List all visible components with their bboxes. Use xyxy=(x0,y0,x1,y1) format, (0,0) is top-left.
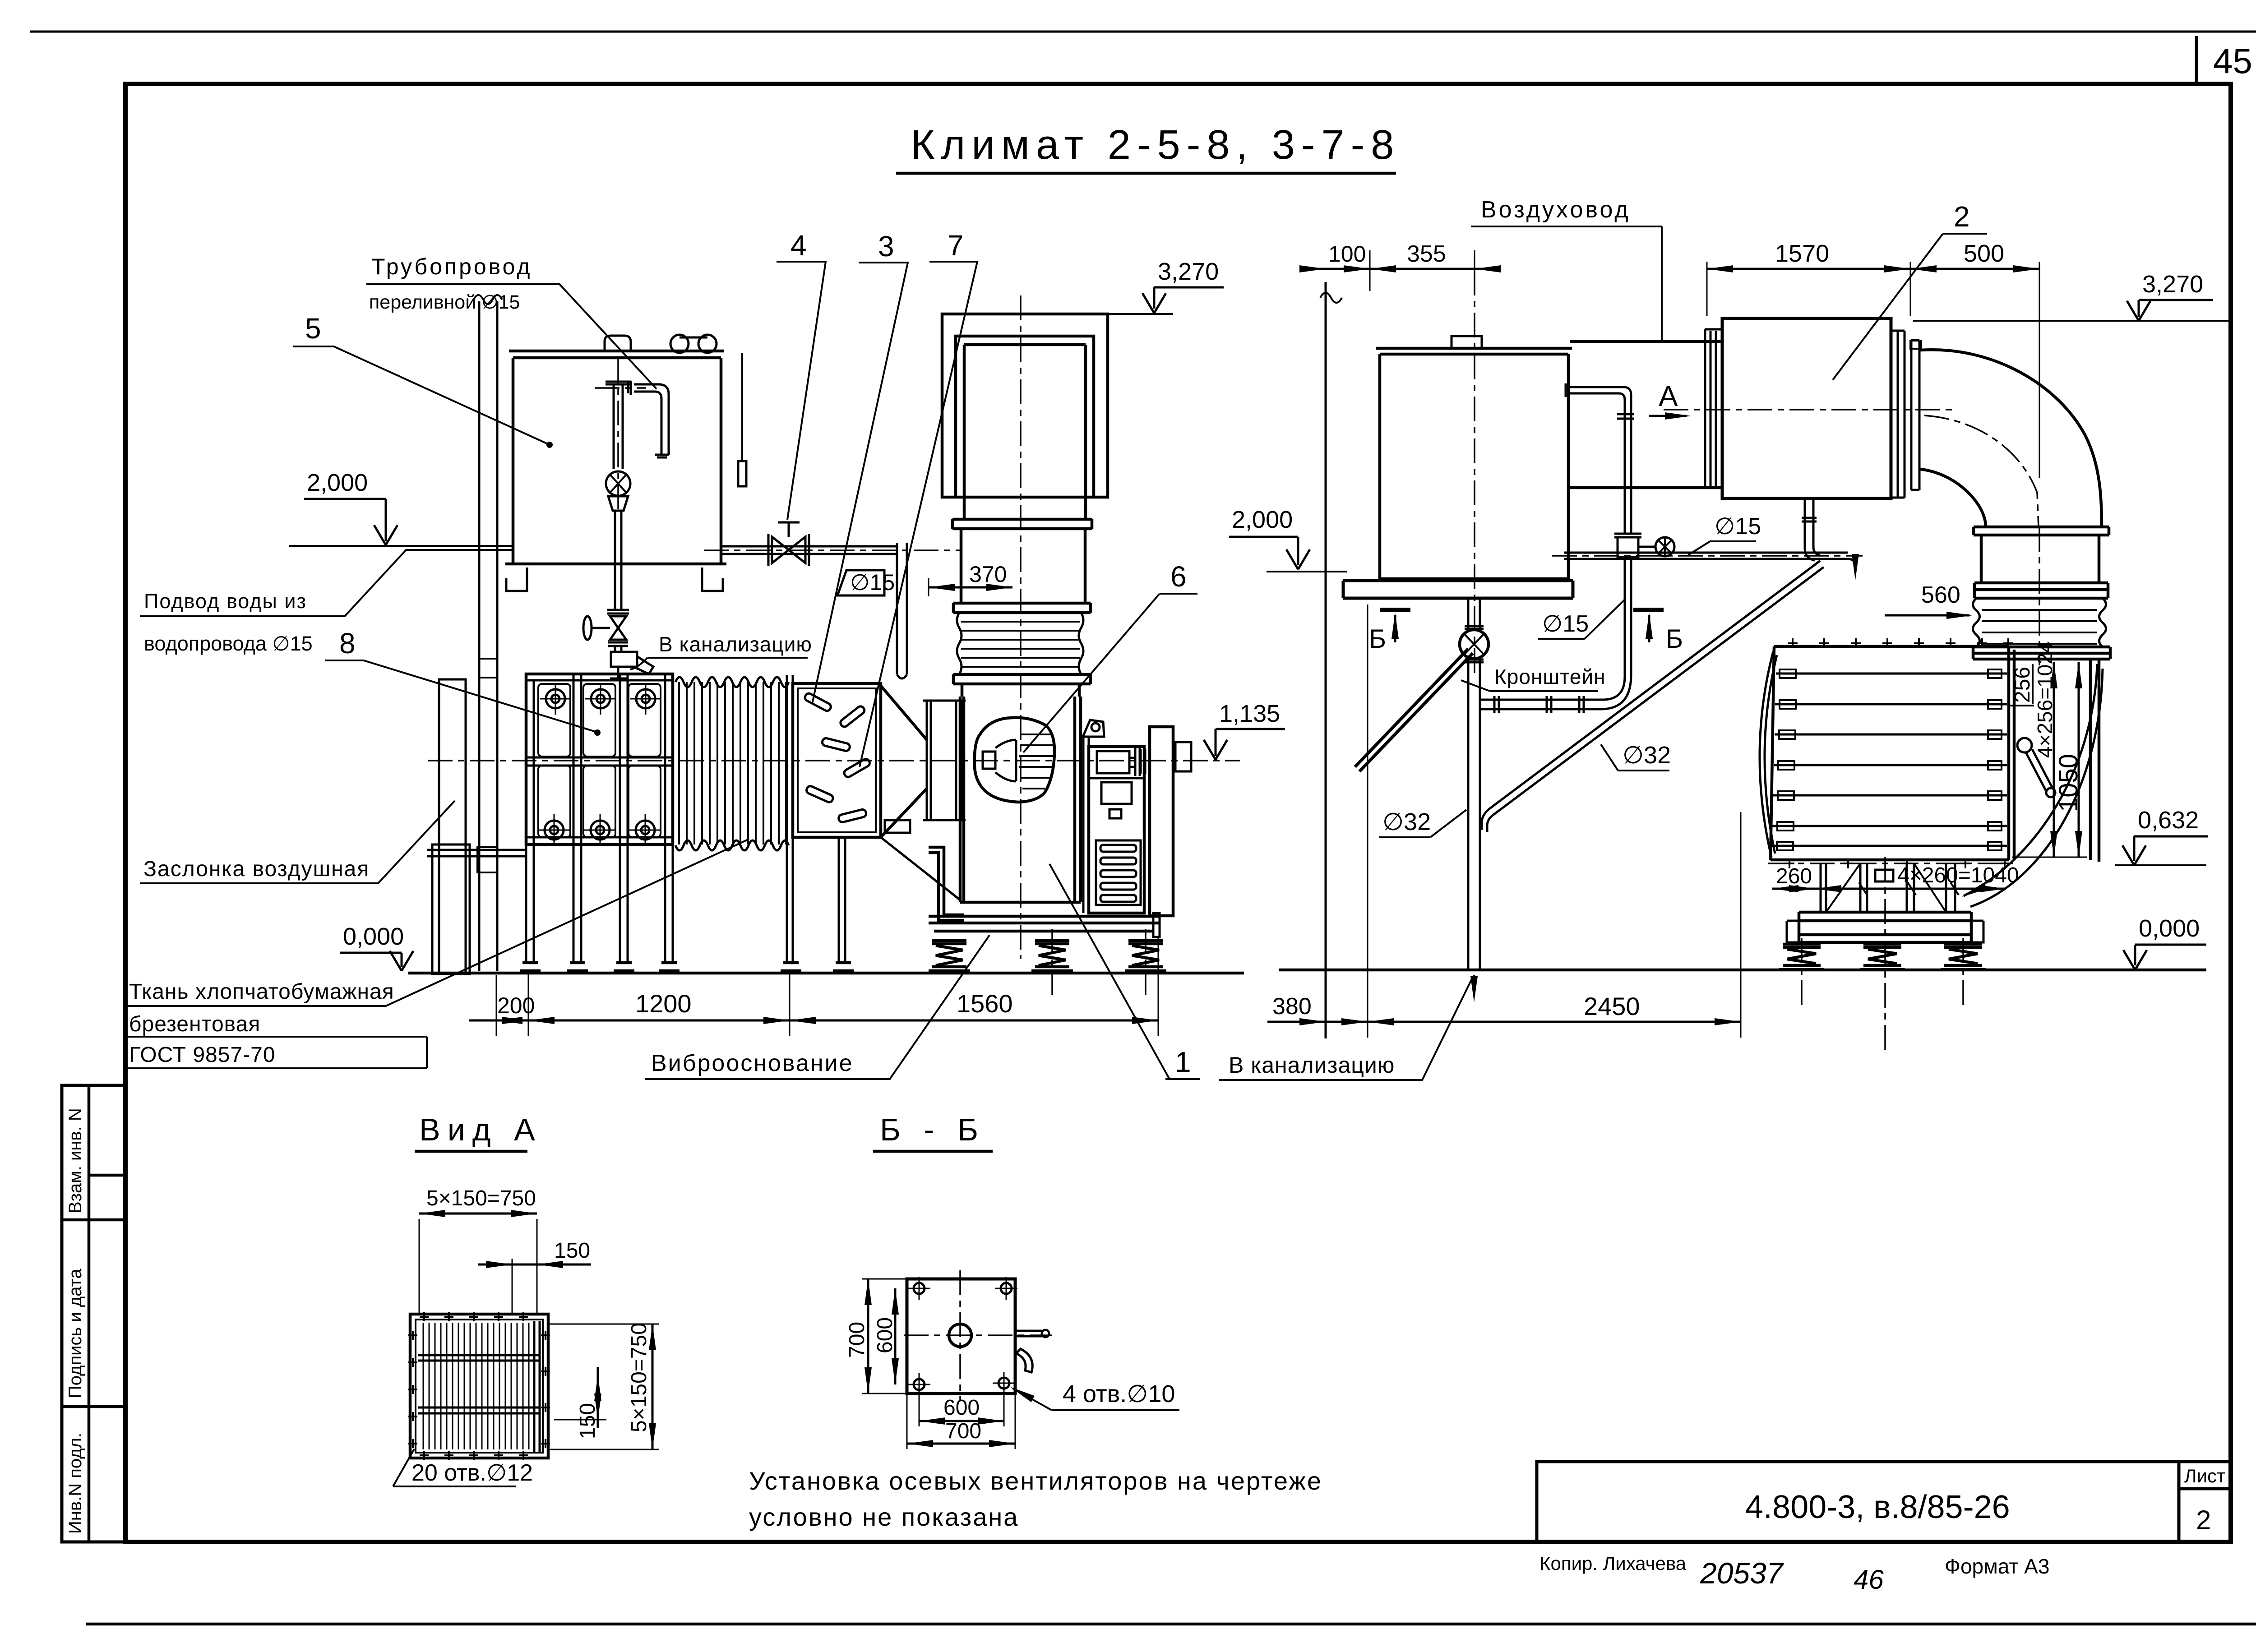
cassette lower panels xyxy=(538,766,570,837)
svg-text:Климат 2-5-8, 3-7-8: Климат 2-5-8, 3-7-8 xyxy=(911,122,1400,168)
heater box xyxy=(1771,646,2014,860)
duct flange 3 xyxy=(1973,647,2110,659)
tank centreline xyxy=(1474,271,1475,677)
svg-text:Лист: Лист xyxy=(2184,1465,2225,1486)
scroll sweep curves xyxy=(1964,664,2103,907)
vertical duct xyxy=(1981,535,2099,583)
duct flange 2 xyxy=(1974,583,2108,598)
pipe below funnel xyxy=(615,511,621,564)
shelf bracket right xyxy=(702,568,723,591)
shelf bracket left xyxy=(506,568,527,591)
water tank top xyxy=(509,351,724,358)
svg-text:1200: 1200 xyxy=(635,989,692,1018)
svg-text:1560: 1560 xyxy=(957,989,1013,1018)
ф15 flag label xyxy=(837,570,884,595)
shaft and coupling xyxy=(1097,751,1129,773)
svg-text:Копир. Лихачева: Копир. Лихачева xyxy=(1539,1553,1687,1574)
svg-text:1050: 1050 xyxy=(2054,754,2083,812)
svg-text:Ткань хлопчатобумажная: Ткань хлопчатобумажная xyxy=(129,980,394,1004)
discharge duct walls xyxy=(964,345,1086,519)
overflow discharge elbow xyxy=(628,381,669,455)
svg-text:7: 7 xyxy=(948,229,964,262)
connector to fan xyxy=(962,684,1079,697)
tank shelf right view xyxy=(1343,581,1573,598)
svg-text:5×150=750: 5×150=750 xyxy=(627,1323,651,1432)
svg-text:Вид А: Вид А xyxy=(419,1112,542,1147)
vibration spring middle xyxy=(1031,941,1073,971)
svg-text:4×256=1024: 4×256=1024 xyxy=(2033,641,2057,758)
heater louvre lines xyxy=(1772,674,2007,846)
svg-text:В канализацию: В канализацию xyxy=(1229,1052,1395,1078)
vibration spring left xyxy=(929,941,970,971)
svg-text:370: 370 xyxy=(969,562,1007,587)
arrow to pan xyxy=(1848,559,1855,572)
svg-text:700: 700 xyxy=(945,1419,981,1443)
drain union xyxy=(608,642,628,652)
motor bracket with hole xyxy=(1083,720,1104,737)
damper rails to cassette xyxy=(427,850,526,856)
svg-text:3,270: 3,270 xyxy=(1158,258,1219,285)
post foot pads xyxy=(520,963,854,971)
svg-text:4.800-3, в.8/85-26: 4.800-3, в.8/85-26 xyxy=(1745,1489,2010,1525)
plate centre hole xyxy=(949,1324,971,1347)
discharge flange 3 xyxy=(953,674,1091,684)
impeller hub xyxy=(983,752,995,769)
crank box xyxy=(885,820,910,833)
svg-text:500: 500 xyxy=(1964,240,2004,267)
motor window xyxy=(1101,782,1132,804)
ф32 diagonal pipe xyxy=(1482,561,1824,832)
plate corner holes xyxy=(914,1283,1012,1390)
svg-text:∅15: ∅15 xyxy=(1542,611,1589,637)
elbow centreline arc xyxy=(1924,415,2039,527)
svg-text:∅15: ∅15 xyxy=(850,570,895,595)
svg-text:8: 8 xyxy=(339,627,356,660)
bracket strut xyxy=(1355,649,1473,771)
motor mount plate xyxy=(1083,737,1089,913)
page outer bottom line xyxy=(86,1623,2256,1626)
air damper lower panel xyxy=(432,844,470,974)
section mark Б right xyxy=(1633,608,1664,612)
svg-text:Воздуховод: Воздуховод xyxy=(1481,197,1631,223)
svg-text:200: 200 xyxy=(497,993,535,1018)
svg-text:2,000: 2,000 xyxy=(1232,506,1293,533)
pedestal spring middle xyxy=(1860,944,1905,969)
drain pipe under tank xyxy=(615,564,621,610)
end plate xyxy=(1150,727,1173,916)
page outer top line xyxy=(30,31,2256,33)
heater bottom centreline with + marks xyxy=(1768,863,2013,864)
svg-text:Инв.N подл.: Инв.N подл. xyxy=(65,1433,85,1534)
svg-text:20537: 20537 xyxy=(1700,1556,1784,1590)
AHU centreline xyxy=(1664,409,1954,411)
svg-text:5: 5 xyxy=(305,312,321,345)
pipe down to elbow xyxy=(1601,557,1631,709)
svg-text:46: 46 xyxy=(1854,1564,1884,1595)
svg-text:600: 600 xyxy=(943,1396,980,1420)
svg-text:Виброоснование: Виброоснование xyxy=(651,1050,854,1076)
svg-text:Формат А3: Формат А3 xyxy=(1945,1555,2049,1578)
pedestal web braces xyxy=(1826,863,1946,912)
vertical dim lines right of heater xyxy=(2054,662,2079,857)
float wire and weight xyxy=(741,353,743,461)
svg-text:2: 2 xyxy=(1954,200,1970,233)
pedestal top flange xyxy=(1799,912,1971,921)
bottom dim extension lines xyxy=(496,938,1158,1036)
discharge outer casing xyxy=(942,314,1108,497)
plate centrelines xyxy=(904,1270,1052,1401)
title block xyxy=(1537,1462,2231,1542)
crank handle on heater xyxy=(2017,738,2032,752)
svg-text:А: А xyxy=(1659,380,1678,412)
svg-text:45: 45 xyxy=(2213,41,2252,81)
bottom dims right view xyxy=(1368,970,1741,1038)
transition cone xyxy=(881,686,927,837)
fan housing side plates xyxy=(960,697,1081,902)
grille right strip xyxy=(534,1321,540,1452)
sheet number box 45 xyxy=(2195,36,2198,84)
svg-text:Б: Б xyxy=(1666,624,1683,654)
duct continues to heater xyxy=(2090,659,2099,862)
svg-text:2,000: 2,000 xyxy=(307,469,368,496)
AHU drain pipe xyxy=(1802,498,1820,560)
air damper tall panel xyxy=(439,679,466,974)
svg-text:0,000: 0,000 xyxy=(343,923,404,950)
elbow inner curve xyxy=(1920,469,1986,527)
discharge inner casing xyxy=(956,336,1094,497)
svg-text:3,270: 3,270 xyxy=(2142,271,2203,298)
svg-text:5×150=750: 5×150=750 xyxy=(426,1186,536,1210)
svg-text:ГОСТ 9857-70: ГОСТ 9857-70 xyxy=(129,1043,276,1067)
svg-text:1: 1 xyxy=(1175,1046,1191,1078)
cassette bolts bottom row xyxy=(545,821,655,840)
svg-text:Трубопровод: Трубопровод xyxy=(371,254,532,279)
valve with handwheel xyxy=(1614,534,1641,537)
pedestal base beam xyxy=(1799,912,1971,942)
svg-text:Б - Б: Б - Б xyxy=(880,1112,985,1147)
svg-text:100: 100 xyxy=(1328,241,1366,267)
svg-text:1,135: 1,135 xyxy=(1219,700,1280,727)
pipe stub on tank top xyxy=(605,336,631,351)
reference wall line with break xyxy=(1325,282,1327,1038)
svg-text:Б: Б xyxy=(1369,624,1386,654)
svg-text:3: 3 xyxy=(878,230,894,263)
grille horizontal bars xyxy=(418,1355,540,1413)
elbow flange xyxy=(1974,527,2109,535)
section mark Б left xyxy=(1380,608,1410,612)
water tank body xyxy=(513,358,721,564)
scroll shading lines xyxy=(1019,734,1054,789)
Вид А grille outer frame xyxy=(410,1314,548,1458)
grille slats vertical hatch xyxy=(423,1323,529,1449)
motor vent grille xyxy=(1096,840,1141,905)
bellows corrugation lines xyxy=(679,682,786,844)
fan base rails xyxy=(929,916,1160,931)
dim line 100-355 xyxy=(1311,268,1489,270)
svg-text:Заслонка воздушная: Заслонка воздушная xyxy=(143,857,370,881)
dim 100 / 355 extension ticks xyxy=(1370,250,1475,291)
svg-text:∅32: ∅32 xyxy=(1623,742,1671,769)
heater right bolt rail xyxy=(1988,669,2002,850)
svg-text:256: 256 xyxy=(2011,667,2034,703)
cassette upper panels xyxy=(538,684,570,757)
water tank right view xyxy=(1376,348,1572,579)
cassette bolts top row xyxy=(546,689,655,708)
svg-text:Подпись и дата: Подпись и дата xyxy=(65,1269,85,1398)
wall stipple band upper xyxy=(479,659,497,678)
svg-text:Кронштейн: Кронштейн xyxy=(1494,665,1606,688)
fan horizontal axis centreline xyxy=(428,760,1240,761)
supply pipe from tank to riser xyxy=(721,546,897,554)
drain valve with handwheel xyxy=(592,610,629,640)
svg-text:Взам. инв. N: Взам. инв. N xyxy=(65,1108,85,1214)
pedestal spring left xyxy=(1779,944,1824,969)
grille + bolt marks xyxy=(408,1312,550,1460)
horizontal ф15 pipe xyxy=(1564,553,1848,559)
svg-text:150: 150 xyxy=(576,1403,600,1439)
svg-text:1570: 1570 xyxy=(1775,240,1829,267)
valve on supply pipe xyxy=(768,522,809,566)
duct bellows xyxy=(1973,598,2106,647)
ground line left view xyxy=(408,972,1244,975)
svg-text:4: 4 xyxy=(791,229,807,262)
horizontal pipe to drain tee xyxy=(1479,696,1603,713)
pedestal spring right xyxy=(1941,944,1986,969)
wall stipple band lower xyxy=(477,847,497,872)
heater inlet arc xyxy=(1760,651,1777,857)
spring centrelines xyxy=(1802,938,1963,1006)
svg-text:Подвод воды из: Подвод воды из xyxy=(144,590,307,613)
overflow valve xyxy=(606,471,630,496)
svg-text:брезентовая: брезентовая xyxy=(129,1012,260,1036)
sewer arrow below floor xyxy=(1473,975,1475,995)
AHU left flange xyxy=(1705,329,1722,488)
elbow outer curve xyxy=(1920,350,2102,527)
svg-text:700: 700 xyxy=(845,1322,869,1358)
motor body xyxy=(1089,747,1144,913)
discharge duct vertical centreline xyxy=(1020,295,1022,959)
svg-text:150: 150 xyxy=(554,1239,590,1263)
overflow riser pipe xyxy=(897,543,907,678)
canvas bellows scalloped top xyxy=(675,677,789,687)
damper pins xyxy=(804,692,871,823)
air duct tank to AHU xyxy=(1570,341,1721,488)
svg-text:Установка осевых вентиляторо: Установка осевых вентиляторов на чертеже xyxy=(749,1467,1322,1495)
cone diagonal brace xyxy=(881,837,960,900)
svg-text:560: 560 xyxy=(1921,582,1960,608)
plate handle xyxy=(1017,1331,1042,1336)
pin damper panel (part 3) xyxy=(793,683,881,837)
svg-text:260: 260 xyxy=(1776,864,1812,888)
small block right of end plate xyxy=(1175,742,1191,771)
discharge bellows xyxy=(957,613,1083,674)
filter cassette frame xyxy=(526,674,673,844)
bellows right post xyxy=(787,675,793,963)
svg-text:600: 600 xyxy=(873,1317,897,1353)
fan inlet plates xyxy=(923,701,966,820)
left stamp column xyxy=(62,1085,125,1542)
spring centrelines xyxy=(1052,929,1146,995)
svg-text:20 отв.∅12: 20 отв.∅12 xyxy=(411,1460,533,1486)
Б-Б plate square xyxy=(907,1279,1015,1394)
heater left bolt rail xyxy=(1777,669,1796,850)
svg-text:0,632: 0,632 xyxy=(2138,807,2199,834)
vibration spring right xyxy=(1125,941,1166,971)
svg-text:В канализацию: В канализацию xyxy=(659,632,812,656)
bottom dim line xyxy=(469,1020,1158,1022)
drain pipe down to sewer xyxy=(1468,598,1480,970)
svg-text:4 отв.∅10: 4 отв.∅10 xyxy=(1063,1380,1175,1407)
tank shelf xyxy=(505,563,726,566)
canvas bellows scalloped bottom xyxy=(675,840,789,850)
pedestal centreline xyxy=(1884,857,1886,1051)
discharge flange 2 xyxy=(953,603,1091,613)
cassette posts / legs xyxy=(526,674,673,963)
dim 4x260=1040 with box symbol xyxy=(1875,870,1893,881)
svg-text:355: 355 xyxy=(1407,241,1446,267)
tank cap xyxy=(1452,336,1482,348)
flange bolt box xyxy=(1910,341,1921,349)
ground line right view xyxy=(1279,969,2206,972)
svg-text:∅15: ∅15 xyxy=(1715,513,1761,540)
drain trap xyxy=(611,652,637,667)
fan base bent plate xyxy=(929,847,964,920)
svg-text:380: 380 xyxy=(1272,993,1312,1020)
pedestal webs xyxy=(1821,863,1955,912)
svg-text:условно не показана: условно не показана xyxy=(749,1503,1019,1531)
tank crosshair centrelines xyxy=(595,359,646,512)
svg-text:2: 2 xyxy=(2196,1505,2211,1535)
fan scroll / inlet cone blob xyxy=(975,718,1054,802)
AHU body (part 2) xyxy=(1722,318,1891,498)
svg-text:6: 6 xyxy=(1170,560,1187,593)
discharge flange 1 xyxy=(952,519,1092,529)
wall lines with break xyxy=(479,301,497,971)
svg-text:∅32: ∅32 xyxy=(1382,808,1431,835)
damper support post xyxy=(839,837,845,963)
svg-text:водопровода ∅15: водопровода ∅15 xyxy=(144,632,313,655)
tank lifting handle xyxy=(670,335,689,353)
svg-text:0,000: 0,000 xyxy=(2139,915,2200,942)
overflow pipe in tank xyxy=(606,382,631,469)
duct section xyxy=(961,529,1085,603)
AHU right flange xyxy=(1891,331,1919,498)
heater top bolt + marks xyxy=(1788,638,2013,648)
drain valve circle xyxy=(1460,630,1489,659)
pipe from tank top xyxy=(1566,383,1634,534)
svg-text:2450: 2450 xyxy=(1584,992,1640,1020)
